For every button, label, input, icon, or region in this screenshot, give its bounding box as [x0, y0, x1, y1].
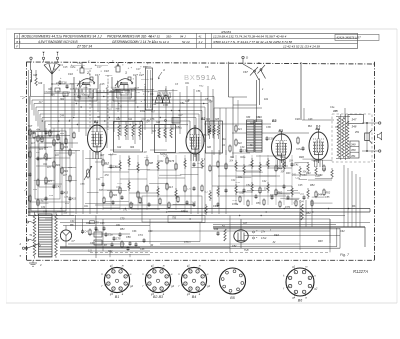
- svg-text:C6: C6: [205, 65, 209, 69]
- svg-text:304a: 304a: [240, 156, 246, 159]
- svg-text:B-6: B-6: [316, 124, 321, 128]
- svg-text:304: 304: [56, 164, 61, 167]
- svg-text:591A: 591A: [196, 73, 217, 82]
- svg-text:R44: R44: [318, 194, 323, 197]
- svg-text:B3: B3: [279, 129, 284, 133]
- svg-text:304: 304: [113, 194, 118, 197]
- svg-text:C44: C44: [185, 100, 190, 103]
- svg-text:R48: R48: [318, 240, 323, 243]
- svg-text:C36: C36: [240, 193, 245, 195]
- svg-text:322: 322: [258, 116, 263, 119]
- svg-text:R52: R52: [310, 184, 315, 187]
- svg-text:12,29,68,4,132,73,74,34,75,38-: 12,29,68,4,132,73,74,34,75,38-44,94 76,5…: [213, 35, 287, 39]
- svg-text:R52: R52: [199, 85, 204, 87]
- svg-text:C42: C42: [262, 180, 267, 183]
- svg-text:C34: C34: [41, 206, 46, 209]
- svg-text:R61: R61: [116, 224, 121, 227]
- svg-text:R52: R52: [105, 175, 110, 177]
- svg-text:C44: C44: [299, 200, 304, 203]
- svg-text:4: 4: [149, 283, 150, 286]
- svg-text:451: 451: [355, 131, 360, 134]
- svg-text:C41: C41: [294, 164, 299, 167]
- svg-text:3/508 12,17 7 N, IT 44,41,7 77: 3/508 12,17 7 N, IT 44,41,7 77 92 42 +4,…: [213, 40, 292, 44]
- svg-text:B4: B4: [192, 295, 196, 299]
- svg-text:C53: C53: [302, 175, 307, 177]
- svg-text:C76: C76: [116, 238, 121, 241]
- svg-text:R41: R41: [185, 82, 190, 85]
- svg-text:C16: C16: [68, 72, 73, 76]
- svg-text:319: 319: [38, 82, 43, 85]
- svg-text:318a: 318a: [70, 66, 76, 69]
- svg-text:MA: MA: [222, 138, 226, 141]
- svg-text:12 42 43 52 21 /23 4 24 38: 12 42 43 52 21 /23 4 24 38: [283, 45, 320, 49]
- svg-text:C41: C41: [123, 209, 128, 212]
- svg-text:302: 302: [48, 88, 53, 91]
- svg-text:C43: C43: [56, 186, 61, 189]
- svg-text:C35: C35: [57, 211, 62, 213]
- svg-text:413: 413: [64, 192, 69, 195]
- svg-text:C39: C39: [240, 146, 245, 149]
- svg-text:B5: B5: [230, 296, 234, 300]
- svg-text:S: S: [258, 61, 260, 65]
- svg-text:C62: C62: [300, 193, 305, 195]
- svg-text:1 14 7e 12 4: 1 14 7e 12 4: [152, 40, 169, 44]
- svg-text:C68: C68: [140, 248, 145, 251]
- svg-text:349: 349: [351, 143, 356, 147]
- svg-text:C62: C62: [142, 119, 147, 121]
- svg-text:C52: C52: [232, 245, 237, 248]
- svg-text:PROEFNUMMERS NR 392- 44: PROEFNUMMERS NR 392- 44: [107, 35, 152, 39]
- svg-text:C52: C52: [246, 184, 251, 187]
- svg-text:C53: C53: [233, 200, 238, 202]
- svg-text:350: 350: [351, 148, 356, 152]
- svg-text:R47: R47: [178, 114, 183, 117]
- svg-text:111: 111: [88, 250, 92, 253]
- svg-text:C27: C27: [139, 73, 144, 77]
- svg-text:4/52/84: 4/52/84: [221, 30, 231, 34]
- svg-text:C41: C41: [292, 174, 297, 177]
- svg-text:GESPANNGSOMV 1 14 7e 12: GESPANNGSOMV 1 14 7e 12: [112, 40, 155, 44]
- svg-text:R62: R62: [108, 250, 113, 253]
- svg-text:R52: R52: [306, 212, 311, 215]
- svg-text:327: 327: [152, 130, 157, 133]
- svg-text:C52: C52: [176, 126, 181, 129]
- svg-text:2: 2: [19, 242, 22, 246]
- svg-text:C44a: C44a: [280, 156, 287, 159]
- svg-text:5476: 5476: [169, 160, 175, 163]
- svg-text:B6: B6: [70, 223, 74, 227]
- svg-text:C76: C76: [163, 103, 168, 107]
- svg-text:324: 324: [206, 118, 211, 121]
- svg-text:4: 4: [185, 283, 186, 286]
- svg-text:R1227A: R1227A: [353, 269, 368, 274]
- svg-text:345: 345: [333, 109, 338, 113]
- svg-text:C25: C25: [100, 83, 105, 86]
- svg-text:C56: C56: [196, 90, 201, 93]
- svg-text:310: 310: [116, 118, 121, 121]
- svg-text:101: 101: [264, 98, 269, 101]
- svg-text:C70: C70: [120, 218, 125, 221]
- svg-text:R60: R60: [86, 222, 91, 225]
- svg-text:C13: C13: [55, 240, 60, 243]
- svg-text:R41: R41: [84, 205, 89, 208]
- svg-text:3: 3: [125, 71, 127, 75]
- svg-text:1: 1: [166, 284, 167, 286]
- svg-text:1: 1: [309, 286, 310, 288]
- svg-text:C27: C27: [133, 73, 138, 77]
- svg-text:C31: C31: [46, 92, 51, 94]
- svg-text:R47: R47: [270, 194, 275, 197]
- svg-text:C55: C55: [325, 196, 330, 199]
- svg-text:413: 413: [169, 186, 174, 189]
- svg-text:R52: R52: [326, 192, 331, 195]
- svg-text:321: 321: [250, 122, 255, 125]
- svg-text:C44: C44: [322, 168, 327, 171]
- svg-text:415: 415: [48, 180, 53, 183]
- svg-text:302: 302: [60, 98, 65, 101]
- svg-text:R56: R56: [116, 109, 121, 111]
- svg-text:322: 322: [238, 142, 243, 145]
- svg-text:304: 304: [130, 146, 135, 149]
- svg-text:C62: C62: [83, 87, 88, 89]
- svg-text:C77: C77: [293, 203, 298, 205]
- svg-text:312: 312: [117, 146, 122, 149]
- svg-text:B 6: B 6: [16, 40, 21, 44]
- svg-text:B3: B3: [272, 119, 277, 123]
- svg-text:C47: C47: [143, 66, 148, 69]
- svg-text:326: 326: [207, 146, 212, 149]
- svg-text:347: 347: [352, 118, 357, 122]
- svg-text:C31: C31: [33, 189, 38, 191]
- svg-text:C77: C77: [163, 155, 168, 157]
- svg-text:C30: C30: [212, 130, 217, 133]
- svg-text:C3B: C3B: [266, 126, 271, 129]
- svg-text:B2-B3: B2-B3: [153, 295, 163, 299]
- svg-text:4 2: 4 2: [199, 40, 203, 44]
- svg-text:C62: C62: [249, 165, 254, 167]
- svg-text:1M: 1M: [143, 152, 146, 154]
- svg-text:330: 330: [246, 116, 251, 119]
- svg-text:C31: C31: [295, 177, 300, 179]
- svg-text:52 14: 52 14: [182, 40, 190, 44]
- svg-text:C60: C60: [70, 220, 75, 223]
- svg-text:325: 325: [215, 118, 220, 121]
- svg-text:41: 41: [199, 35, 203, 39]
- svg-text:DE2: DE2: [306, 172, 311, 175]
- svg-text:F: F: [16, 45, 18, 49]
- svg-text:R64: R64: [159, 160, 164, 163]
- svg-text:1: 1: [125, 284, 126, 286]
- svg-text:17e4: 17e4: [261, 237, 267, 240]
- svg-text:R41: R41: [238, 176, 243, 179]
- svg-text:392-: 392-: [166, 35, 172, 39]
- svg-text:TU8: TU8: [244, 249, 249, 252]
- svg-text:317: 317: [70, 88, 75, 91]
- svg-text:1M: 1M: [36, 152, 39, 154]
- svg-text:ZT 567 34: ZT 567 34: [76, 45, 92, 49]
- svg-text:307: 307: [100, 154, 105, 157]
- svg-text:C49: C49: [214, 228, 219, 231]
- svg-text:C7a: C7a: [140, 109, 145, 113]
- svg-text:317: 317: [28, 125, 33, 128]
- svg-text:C67: C67: [90, 242, 95, 245]
- svg-text:C41: C41: [184, 210, 189, 213]
- svg-text:C53: C53: [117, 183, 122, 185]
- svg-text:Rh: Rh: [352, 204, 356, 208]
- svg-text:C3B: C3B: [243, 150, 248, 153]
- svg-text:C44: C44: [231, 179, 236, 182]
- svg-text:4: 4: [289, 285, 290, 288]
- svg-text:R52: R52: [139, 202, 144, 204]
- svg-text:C15: C15: [63, 66, 68, 69]
- svg-text:4,5V/7 RADIOBE NCY/16 B: 4,5V/7 RADIOBE NCY/16 B: [38, 40, 78, 44]
- svg-text:C30: C30: [36, 129, 41, 131]
- svg-text:B1: B1: [115, 295, 119, 299]
- svg-text:C40: C40: [295, 117, 300, 121]
- svg-text:C66: C66: [132, 230, 137, 233]
- svg-text:4: 4: [108, 283, 109, 286]
- svg-text:C17: C17: [97, 66, 102, 69]
- svg-text:C33: C33: [65, 203, 70, 205]
- svg-text:313: 313: [156, 121, 161, 124]
- svg-text:1: 1: [202, 284, 203, 286]
- svg-text:B4: B4: [308, 124, 312, 128]
- svg-text:R31: R31: [60, 133, 65, 135]
- svg-text:94 J: 94 J: [180, 35, 186, 39]
- svg-text:C17: C17: [95, 73, 100, 77]
- svg-text:C58: C58: [80, 184, 85, 186]
- svg-text:C18: C18: [104, 69, 109, 73]
- svg-text:C44: C44: [60, 115, 65, 118]
- svg-text:MODELNUMMERS 44,51a PROEFNUMME: MODELNUMMERS 44,51a PROEFNUMMERS 94 J.J: [22, 35, 102, 39]
- svg-text:R51: R51: [120, 228, 125, 231]
- svg-text:C16: C16: [62, 82, 67, 85]
- svg-text:753: 753: [172, 217, 177, 220]
- svg-text:R53: R53: [256, 202, 261, 205]
- svg-text:C67: C67: [243, 70, 248, 74]
- svg-text:C36: C36: [136, 92, 141, 94]
- svg-text:304: 304: [40, 138, 45, 141]
- svg-text:C45: C45: [298, 184, 303, 187]
- svg-text:351: 351: [351, 154, 356, 158]
- svg-text:C48: C48: [113, 166, 118, 169]
- svg-text:C24: C24: [127, 62, 132, 65]
- svg-text:321: 321: [238, 128, 243, 131]
- svg-text:C4a: C4a: [330, 106, 335, 109]
- svg-text:8,47 52: 8,47 52: [150, 35, 160, 39]
- svg-text:B6: B6: [298, 298, 302, 302]
- svg-text:346: 346: [335, 126, 340, 129]
- svg-text:C62: C62: [340, 230, 345, 233]
- svg-text:R56: R56: [314, 161, 319, 163]
- svg-text:C38: C38: [269, 138, 274, 141]
- svg-text:C5b: C5b: [202, 134, 207, 137]
- svg-text:C41: C41: [118, 105, 123, 108]
- svg-text:C56: C56: [126, 236, 131, 239]
- svg-text:318: 318: [33, 74, 38, 77]
- svg-text:R46: R46: [299, 155, 304, 159]
- svg-text:DE2: DE2: [274, 233, 280, 237]
- svg-text:C74: C74: [138, 234, 143, 237]
- svg-text:C27: C27: [136, 68, 141, 71]
- svg-text:348: 348: [352, 125, 357, 129]
- svg-text:C78a: C78a: [232, 202, 239, 206]
- svg-text:316: 316: [43, 211, 48, 214]
- svg-text:VA: VA: [222, 144, 225, 147]
- svg-text:42424-345678 LIST: 42424-345678 LIST: [337, 36, 362, 40]
- svg-text:C61: C61: [213, 204, 218, 208]
- svg-text:C58: C58: [64, 196, 69, 198]
- svg-text:BX: BX: [184, 73, 196, 82]
- svg-text:C65: C65: [100, 222, 105, 225]
- svg-text:C48: C48: [308, 118, 313, 121]
- svg-text:R63: R63: [148, 230, 153, 233]
- svg-text:C76: C76: [150, 118, 155, 121]
- svg-text:Fig. 7: Fig. 7: [340, 253, 350, 257]
- svg-text:C21: C21: [108, 108, 113, 110]
- svg-text:347a: 347a: [296, 148, 302, 151]
- svg-text:C41: C41: [43, 156, 48, 159]
- svg-text:R41: R41: [43, 163, 48, 166]
- svg-text:C53: C53: [236, 182, 241, 184]
- svg-text:B2: B2: [201, 117, 205, 121]
- svg-text:B1: B1: [94, 120, 99, 124]
- svg-text:311: 311: [128, 118, 133, 121]
- svg-text:C14: C14: [77, 62, 82, 65]
- svg-text:R56: R56: [51, 95, 56, 97]
- svg-text:C58: C58: [144, 157, 149, 159]
- svg-text:C32: C32: [49, 195, 54, 197]
- svg-text:S: S: [16, 35, 18, 39]
- svg-text:R43: R43: [286, 172, 291, 175]
